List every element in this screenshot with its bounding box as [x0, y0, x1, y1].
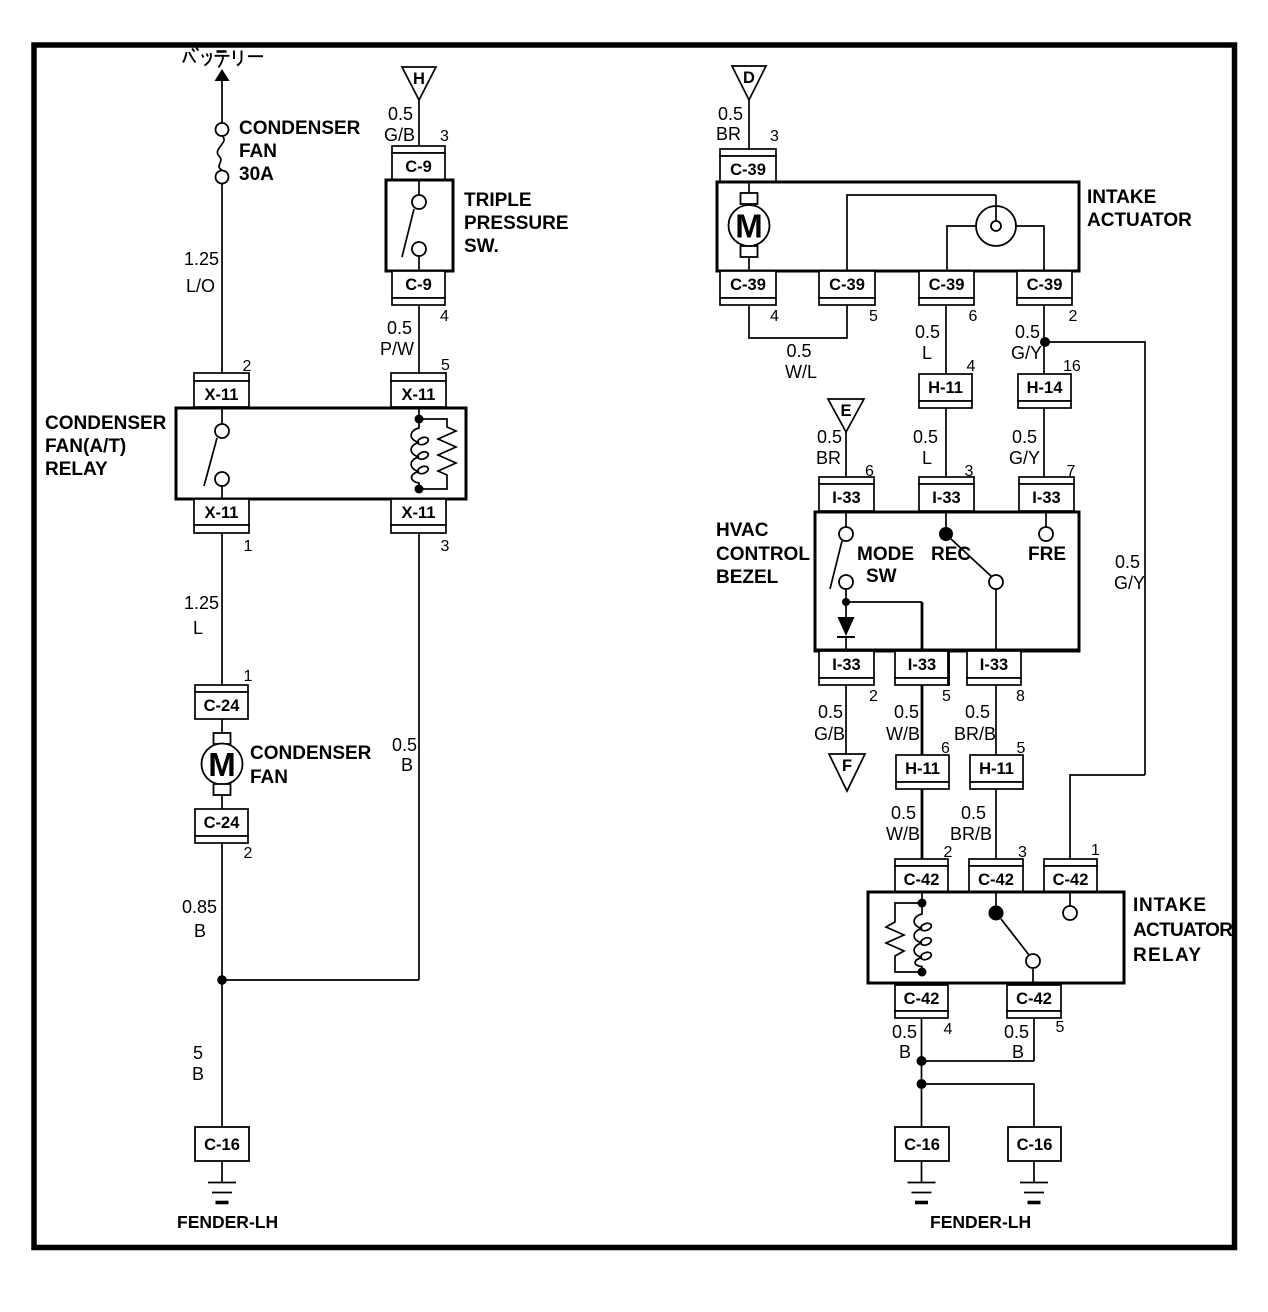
- svg-text:C-9: C-9: [405, 158, 432, 176]
- svg-text:PRESSURE: PRESSURE: [464, 213, 569, 234]
- relay K2 INTAKE ACTUATOR RELAY box: [868, 892, 1124, 983]
- connector C-16 (left): [195, 1127, 249, 1161]
- diode D1: [845, 602, 847, 617]
- wire H-11 to C-42 pin2: [921, 789, 924, 859]
- wire C-9 pin4 to X-11 pin5: [418, 305, 420, 373]
- svg-text:C-39: C-39: [829, 276, 865, 294]
- wire junction B1: [922, 1060, 1035, 1062]
- svg-text:H: H: [413, 70, 425, 88]
- node junction B2: [917, 1079, 927, 1089]
- svg-text:2: 2: [1069, 308, 1078, 325]
- ground (mid, FENDER-LH): [921, 1161, 923, 1182]
- connector C-9 (pin 4, bottom): [392, 271, 445, 305]
- svg-text:0.5: 0.5: [388, 104, 413, 124]
- svg-text:1: 1: [244, 668, 253, 685]
- relay K2 switch: [995, 893, 997, 906]
- wire internal actuator top: [847, 195, 996, 271]
- relay K1 CONDENSER FAN(A/T) RELAY box: [176, 408, 466, 499]
- svg-text:M: M: [735, 208, 763, 245]
- svg-text:W/B: W/B: [886, 724, 920, 744]
- svg-text:C-16: C-16: [204, 1136, 240, 1154]
- wire G/Y branch right and down: [1045, 342, 1145, 775]
- connector X-11 (pin 3, bottom): [391, 499, 446, 533]
- svg-text:L: L: [922, 448, 932, 468]
- wire C-24 to motor: [221, 719, 223, 733]
- wire I-33 pin5 to H-11 pin6: [921, 685, 924, 755]
- svg-text:C-42: C-42: [1053, 871, 1089, 889]
- connector I-33 (pin 8, bottom): [967, 651, 1021, 685]
- svg-text:1: 1: [244, 538, 253, 555]
- svg-text:G/B: G/B: [814, 724, 845, 744]
- svg-text:C-39: C-39: [730, 276, 766, 294]
- svg-text:5: 5: [441, 357, 450, 374]
- svg-text:RELAY: RELAY: [1133, 945, 1201, 966]
- ground (right, FENDER-LH): [1033, 1161, 1035, 1182]
- svg-text:0.85: 0.85: [182, 897, 217, 917]
- svg-text:0.5: 0.5: [392, 735, 417, 755]
- svg-text:B: B: [899, 1042, 911, 1062]
- connector C-24 (pin 2, bottom): [195, 809, 248, 843]
- svg-text:ACTUATOR: ACTUATOR: [1133, 920, 1233, 941]
- svg-text:FAN: FAN: [239, 141, 277, 162]
- wire junction to REC output: [846, 601, 922, 603]
- wire X-11 pin3 down to junction: [418, 533, 420, 980]
- connector C-42 (pin 1, top): [1044, 859, 1097, 892]
- motor M1 CONDENSER FAN: [214, 733, 231, 744]
- svg-text:0.5: 0.5: [1004, 1022, 1029, 1042]
- svg-text:X-11: X-11: [205, 504, 239, 522]
- svg-text:SW.: SW.: [464, 236, 499, 257]
- svg-text:BR: BR: [716, 124, 741, 144]
- wire H-11 to I-33 pin3: [945, 408, 947, 477]
- svg-text:CONDENSER: CONDENSER: [239, 118, 361, 139]
- svg-text:FENDER-LH: FENDER-LH: [177, 1212, 278, 1232]
- svg-text:CONDENSER: CONDENSER: [45, 413, 167, 434]
- connector C-39 (pin 3, top): [720, 149, 776, 182]
- position sensor P1: [976, 206, 1016, 246]
- svg-text:B: B: [194, 921, 206, 941]
- svg-text:G/Y: G/Y: [1011, 343, 1042, 363]
- svg-text:C-16: C-16: [1017, 1136, 1053, 1154]
- connector C-39 (pin 5, bottom): [819, 271, 875, 305]
- svg-text:0.5: 0.5: [1115, 552, 1140, 572]
- svg-text:1.25: 1.25: [184, 593, 219, 613]
- svg-text:W/B: W/B: [886, 824, 920, 844]
- svg-text:16: 16: [1063, 358, 1081, 375]
- svg-text:SW: SW: [866, 566, 897, 587]
- connector C-39 (pin 2, bottom): [1017, 271, 1072, 305]
- connector C-16 (right): [1008, 1127, 1061, 1161]
- svg-text:RELAY: RELAY: [45, 459, 108, 480]
- svg-text:BEZEL: BEZEL: [716, 567, 779, 588]
- connector H-11 (pin 5): [970, 755, 1023, 789]
- svg-text:E: E: [840, 402, 851, 420]
- connector I-33 (pin 5, bottom): [895, 651, 949, 686]
- svg-text:0.5: 0.5: [818, 702, 843, 722]
- node junction mode sw: [842, 598, 850, 606]
- svg-text:W/L: W/L: [785, 362, 817, 382]
- wire battery arrow to fuse: [221, 80, 223, 123]
- svg-text:L: L: [922, 343, 932, 363]
- svg-text:4: 4: [944, 1021, 953, 1038]
- ground (left, FENDER-LH): [221, 1161, 223, 1182]
- svg-text:0.5: 0.5: [1015, 322, 1040, 342]
- svg-text:I-33: I-33: [1032, 489, 1060, 507]
- svg-text:G/Y: G/Y: [1009, 448, 1040, 468]
- svg-text:0.5: 0.5: [965, 702, 990, 722]
- motor M2 (intake actuator motor): [748, 183, 750, 193]
- svg-text:0.5: 0.5: [961, 803, 986, 823]
- connector X-11 (pin 5, top): [391, 373, 446, 407]
- svg-text:30A: 30A: [239, 164, 274, 185]
- battery feed arrow: [215, 69, 230, 81]
- wire fuse to X-11 pin 2: [221, 184, 223, 374]
- node E (connector triangle): [828, 399, 864, 432]
- svg-text:INTAKE: INTAKE: [1087, 187, 1156, 208]
- svg-text:C-24: C-24: [204, 697, 241, 715]
- svg-text:B: B: [401, 755, 413, 775]
- svg-text:C-24: C-24: [204, 814, 241, 832]
- svg-text:B: B: [192, 1064, 204, 1084]
- svg-text:L: L: [193, 618, 203, 638]
- svg-text:4: 4: [770, 308, 779, 325]
- connector I-33 (pin 7, top): [1019, 477, 1074, 511]
- node D (connector triangle): [732, 66, 766, 100]
- connector C-42 (pin 5, bottom): [1007, 985, 1061, 1018]
- connector C-42 (pin 4, bottom): [895, 985, 948, 1018]
- wire C-24 pin2 to ground junction: [221, 843, 223, 1128]
- svg-text:C-9: C-9: [405, 276, 432, 294]
- wire junction to second column: [222, 979, 419, 981]
- switch S1 TRIPLE PRESSURE SW box: [386, 180, 453, 271]
- svg-text:C-42: C-42: [904, 990, 940, 1008]
- connector I-33 (pin 2, bottom): [819, 651, 874, 685]
- wire C-39 pin6 to H-11: [945, 305, 947, 374]
- svg-text:5: 5: [869, 308, 878, 325]
- connector C-39 (pin 4, bottom): [720, 271, 776, 305]
- svg-text:1: 1: [1091, 842, 1100, 859]
- node battery (バッテリー label): [183, 48, 263, 68]
- svg-text:0.5: 0.5: [913, 427, 938, 447]
- wire 0.5 W/L loop pins 4-5: [749, 305, 847, 338]
- fuse CONDENSER FAN 30A: [216, 123, 229, 136]
- switch REC: [945, 513, 947, 528]
- svg-text:0.5: 0.5: [817, 427, 842, 447]
- svg-text:G/B: G/B: [384, 125, 415, 145]
- connector C-24 (pin 1, top): [195, 685, 248, 719]
- connector X-11 (pin 2, top): [194, 373, 249, 407]
- wire H-14 to I-33 pin7: [1043, 408, 1045, 477]
- connector C-42 (pin 2, top): [895, 859, 948, 892]
- svg-text:MODE: MODE: [857, 544, 914, 565]
- svg-text:1.25: 1.25: [184, 249, 219, 269]
- svg-text:0.5: 0.5: [387, 318, 412, 338]
- svg-text:INTAKE: INTAKE: [1133, 895, 1206, 916]
- svg-text:X-11: X-11: [402, 504, 436, 522]
- node junction left B: [217, 975, 227, 985]
- svg-text:I-33: I-33: [832, 656, 860, 674]
- connector C-42 (pin 3, top): [969, 859, 1023, 892]
- svg-text:0.5: 0.5: [891, 803, 916, 823]
- connector X-11 (pin 1, bottom): [194, 499, 249, 533]
- wire I-33 pin2 to F: [845, 685, 847, 754]
- svg-text:H-14: H-14: [1027, 379, 1064, 397]
- svg-text:8: 8: [1016, 688, 1025, 705]
- svg-text:BR/B: BR/B: [954, 724, 996, 744]
- relay K1 coil parallel resistor: [419, 419, 456, 489]
- wire E to I-33 pin6: [845, 432, 847, 477]
- HVAC CONTROL BEZEL box U2: [815, 512, 1079, 651]
- svg-text:I-33: I-33: [932, 489, 960, 507]
- connector C-39 (pin 6, bottom): [919, 271, 974, 305]
- svg-text:0.5: 0.5: [892, 1022, 917, 1042]
- svg-text:I-33: I-33: [980, 656, 1008, 674]
- node F (connector triangle): [829, 754, 865, 791]
- connector H-11 (pin 6): [896, 755, 949, 789]
- svg-text:X-11: X-11: [402, 386, 436, 404]
- wire motor to C-24 pin 2: [221, 795, 223, 809]
- svg-text:0.5: 0.5: [718, 104, 743, 124]
- svg-text:C-39: C-39: [730, 161, 766, 179]
- svg-text:H-11: H-11: [979, 760, 1014, 778]
- svg-text:I-33: I-33: [908, 656, 936, 674]
- switch MODE SW: [845, 513, 847, 527]
- svg-text:C-42: C-42: [904, 871, 940, 889]
- node junction B1: [917, 1056, 927, 1066]
- svg-text:C-42: C-42: [1016, 990, 1052, 1008]
- svg-text:C-16: C-16: [904, 1136, 940, 1154]
- svg-text:M: M: [208, 746, 236, 783]
- svg-text:0.5: 0.5: [786, 341, 811, 361]
- connector I-33 (pin 6, top): [819, 477, 874, 511]
- svg-text:3: 3: [770, 128, 779, 145]
- wire D to C-39: [748, 100, 750, 149]
- wire H-11 to C-42 pin3: [995, 789, 997, 859]
- svg-text:P/W: P/W: [380, 339, 414, 359]
- svg-text:CONDENSER: CONDENSER: [250, 743, 372, 764]
- svg-text:H-11: H-11: [905, 760, 940, 778]
- svg-text:REC: REC: [931, 544, 971, 565]
- svg-text:0.5: 0.5: [915, 322, 940, 342]
- connector H-11 (pin 4): [919, 374, 972, 408]
- node junction G/Y branch: [1040, 337, 1050, 347]
- svg-text:4: 4: [440, 308, 449, 325]
- connector I-33 (pin 3, top): [919, 477, 974, 511]
- wire internal actuator right tap: [1016, 226, 1044, 271]
- relay K1 coil: [418, 407, 420, 419]
- svg-text:TRIPLE: TRIPLE: [464, 190, 532, 211]
- svg-text:0.5: 0.5: [894, 702, 919, 722]
- svg-text:3: 3: [440, 128, 449, 145]
- contact FRE: [1045, 513, 1047, 527]
- wire C-42 pin5 down: [1033, 1018, 1035, 1061]
- svg-text:D: D: [743, 69, 755, 87]
- svg-text:G/Y: G/Y: [1114, 573, 1145, 593]
- svg-text:FAN: FAN: [250, 767, 288, 788]
- svg-text:X-11: X-11: [205, 386, 239, 404]
- svg-text:B: B: [1012, 1042, 1024, 1062]
- svg-text:C-42: C-42: [978, 871, 1014, 889]
- svg-text:HVAC: HVAC: [716, 520, 769, 541]
- wire X-11 pin1 to C-24: [221, 533, 223, 685]
- svg-text:2: 2: [244, 845, 253, 862]
- wire C-42 pin4 to ground: [921, 1018, 923, 1128]
- connector H-14 (pin 16): [1018, 374, 1071, 408]
- svg-text:5: 5: [1056, 1019, 1065, 1036]
- svg-text:ACTUATOR: ACTUATOR: [1087, 210, 1192, 231]
- svg-text:I-33: I-33: [832, 489, 860, 507]
- svg-text:L/O: L/O: [186, 276, 215, 296]
- svg-text:0.5: 0.5: [1012, 427, 1037, 447]
- svg-text:BR: BR: [816, 448, 841, 468]
- wire I-33 pin8 to H-11 pin5: [995, 685, 997, 755]
- wire G/Y route to C-42 pin1: [1070, 775, 1145, 859]
- relay K1 switch contacts: [221, 409, 223, 424]
- svg-text:5: 5: [942, 688, 951, 705]
- wire internal actuator left tap: [947, 226, 976, 271]
- svg-text:H-11: H-11: [928, 379, 963, 397]
- svg-text:FAN(A/T): FAN(A/T): [45, 436, 126, 457]
- wire H to C-9: [418, 100, 420, 146]
- svg-text:C-39: C-39: [929, 276, 965, 294]
- wire C-39 pin2 to H-14: [1043, 305, 1045, 374]
- svg-text:6: 6: [969, 308, 978, 325]
- svg-text:C-39: C-39: [1027, 276, 1063, 294]
- node H (connector triangle): [402, 67, 436, 100]
- svg-text:4: 4: [967, 358, 976, 375]
- svg-text:F: F: [842, 757, 852, 775]
- switch S1 contacts: [418, 181, 420, 195]
- connector C-16 (mid): [895, 1127, 949, 1161]
- svg-text:CONTROL: CONTROL: [716, 544, 810, 565]
- actuator U1 INTAKE ACTUATOR box: [717, 182, 1079, 271]
- svg-text:2: 2: [869, 688, 878, 705]
- svg-text:3: 3: [441, 538, 450, 555]
- connector C-9 (pin 3, top): [392, 146, 445, 180]
- svg-text:FRE: FRE: [1028, 544, 1066, 565]
- relay K2 coil: [921, 893, 923, 903]
- wire junction B2 to right C-16: [922, 1084, 1035, 1128]
- relay K2 coil parallel resistor: [886, 903, 922, 972]
- svg-text:BR/B: BR/B: [950, 824, 992, 844]
- svg-text:5: 5: [193, 1043, 203, 1063]
- svg-text:FENDER-LH: FENDER-LH: [930, 1212, 1031, 1232]
